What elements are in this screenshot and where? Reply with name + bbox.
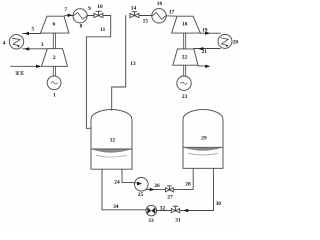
heater HX16 <box>152 9 166 23</box>
aftercooler HX8 <box>73 9 87 23</box>
arrow on line21 <box>198 47 203 50</box>
svg-text:21: 21 <box>202 49 208 55</box>
svg-text:5: 5 <box>31 27 34 33</box>
svg-text:13: 13 <box>130 61 136 67</box>
arrow on line7 <box>68 14 73 17</box>
arrow air inlet <box>36 65 41 68</box>
pump P25 <box>135 178 149 192</box>
svg-text:17: 17 <box>169 10 175 16</box>
svg-text:30: 30 <box>216 201 222 207</box>
wire line11 valve9 to tank12 <box>86 16 110 129</box>
compressor C6 <box>41 16 70 33</box>
wire line17 HX16 to turbine18 <box>166 15 177 17</box>
svg-text:10: 10 <box>97 4 103 10</box>
wire line7 compressor6 to HX8 <box>64 14 73 17</box>
arrow on bottom run <box>183 209 188 212</box>
wire HX8 to valve9 <box>87 15 94 17</box>
arrow on line5 <box>24 32 29 35</box>
intercooler HX4 <box>9 35 23 49</box>
svg-text:6: 6 <box>53 21 56 27</box>
svg-text:34: 34 <box>113 204 119 210</box>
svg-text:16: 16 <box>157 1 163 7</box>
wire pump25 to valve26 <box>146 188 166 190</box>
svg-text:15: 15 <box>143 18 149 24</box>
svg-text:19: 19 <box>202 27 208 33</box>
tank T29 <box>183 110 223 169</box>
svg-text:8: 8 <box>80 23 83 29</box>
svg-text:29: 29 <box>201 135 207 141</box>
wire line24 tank12 to pump25 <box>122 169 135 182</box>
wire line30 tank29 down to bottom run <box>213 168 215 209</box>
exhaust arrow <box>205 65 210 68</box>
air inlet wire <box>11 65 38 67</box>
wire valve14 to HX16 <box>139 15 152 17</box>
valve V14 <box>130 12 139 18</box>
svg-text:26: 26 <box>154 183 160 189</box>
arrow on line19 <box>205 32 210 35</box>
svg-text:12: 12 <box>110 137 116 143</box>
arrow on line3 <box>24 47 29 50</box>
svg-text:18: 18 <box>182 22 188 28</box>
wire line5 HX4 to compressor6 <box>23 33 41 35</box>
svg-text:20: 20 <box>233 39 239 45</box>
fan 33 <box>146 205 157 216</box>
wire valve31 to line30 <box>180 209 214 212</box>
svg-text:27: 27 <box>167 194 173 200</box>
valve V31-32 <box>171 206 179 213</box>
generator G23 <box>177 76 191 90</box>
shaft T22-G23 <box>184 65 186 76</box>
turbine T18 <box>172 16 201 33</box>
svg-text:33: 33 <box>148 218 154 224</box>
svg-text:32: 32 <box>160 205 166 211</box>
reheater HX20 <box>218 34 232 48</box>
arrow after pump25 <box>150 188 155 191</box>
tank T12 <box>91 110 132 170</box>
svg-text:11: 11 <box>100 27 105 33</box>
svg-text:14: 14 <box>131 6 137 12</box>
wire line21 HX20 to turbine22 <box>194 48 220 50</box>
wire line19 turbine18 to HX20 <box>200 32 220 34</box>
svg-text:3: 3 <box>41 42 44 48</box>
valve V26-27 <box>166 186 174 192</box>
svg-text:1: 1 <box>53 93 56 99</box>
svg-text:2: 2 <box>53 55 56 61</box>
compressor C2 <box>42 49 68 67</box>
exhaust wire <box>198 65 206 67</box>
wire line13 tank12 top to valve14 <box>112 16 126 111</box>
svg-text:22: 22 <box>182 55 188 61</box>
svg-text:25: 25 <box>138 192 144 198</box>
turbine T22 <box>173 49 198 65</box>
wire fan33 to valve31 <box>157 210 172 212</box>
svg-text:7: 7 <box>64 7 67 13</box>
svg-text:9: 9 <box>88 6 91 12</box>
shaft C2-M1 <box>53 66 55 76</box>
svg-text:31: 31 <box>175 217 181 223</box>
wire line28 valve27 to tank29 <box>173 168 193 189</box>
valve V9 <box>94 11 103 17</box>
svg-text:24: 24 <box>114 179 120 185</box>
wire line34 tank12 bottom to fan33 <box>102 169 146 210</box>
air inlet tiny glyphs <box>16 72 24 75</box>
shaft C6-C2 <box>53 33 55 49</box>
svg-text:28: 28 <box>185 182 191 188</box>
motor M1 <box>47 76 61 90</box>
svg-text:4: 4 <box>3 41 6 47</box>
svg-text:23: 23 <box>182 94 188 100</box>
wire line3 compressor2 to HX4 <box>23 48 48 50</box>
shaft T18-T22 <box>184 33 186 49</box>
